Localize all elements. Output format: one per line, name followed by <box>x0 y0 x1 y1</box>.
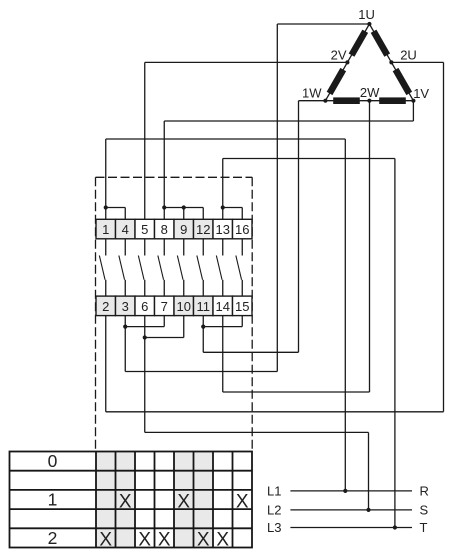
winding bar 2V-1U <box>349 30 368 57</box>
wire cell13 riser <box>222 159 224 220</box>
wire 1W riser <box>298 101 300 353</box>
winding bar 2U-1V <box>393 68 412 95</box>
wire net 3/7 riser <box>124 327 126 372</box>
svg-text:0: 0 <box>48 451 58 471</box>
wire L3 feed horizontal <box>223 158 395 160</box>
wire net1/4 riser <box>105 139 107 219</box>
terminal cell 10 <box>174 296 194 316</box>
svg-text:1: 1 <box>48 490 58 510</box>
svg-text:X: X <box>158 530 171 551</box>
supply line L3 <box>290 527 412 529</box>
stub into terminal 12 <box>202 208 204 220</box>
wire 2V feed horizontal <box>145 61 348 63</box>
svg-text:1V: 1V <box>413 86 429 101</box>
junction dot above terminal 8 <box>162 205 166 209</box>
wire 1W horizontal <box>299 100 326 102</box>
terminal cell 1 <box>96 219 116 239</box>
stub into terminal 9 <box>183 208 185 220</box>
supply line L2 <box>290 509 412 511</box>
svg-text:2V: 2V <box>331 48 347 63</box>
contact S1 (terminals 1-2) <box>99 239 105 296</box>
svg-text:X: X <box>236 491 249 512</box>
junction dot above terminal 13 <box>221 205 225 209</box>
motor winding delta: side 1W-1V <box>325 100 413 102</box>
terminal cell 12 <box>194 219 214 239</box>
stub terminal 11 <box>202 316 204 327</box>
junction dot L1 <box>343 489 347 493</box>
svg-text:7: 7 <box>161 299 168 314</box>
svg-text:1: 1 <box>102 222 109 237</box>
svg-text:X: X <box>177 491 190 512</box>
svg-text:6: 6 <box>141 299 148 314</box>
svg-text:10: 10 <box>177 299 191 314</box>
node 2V <box>345 60 349 64</box>
wire 1V stub down <box>412 101 414 121</box>
wire 1U riser <box>276 24 278 372</box>
junction dot L2 <box>366 508 370 512</box>
contact S5 (terminals 9-10) <box>177 239 183 296</box>
winding bar 1U-2U <box>371 30 390 57</box>
wire L3 riser <box>394 159 396 528</box>
node 1W <box>323 99 327 103</box>
svg-text:R: R <box>420 484 429 499</box>
wire cell2 riser <box>105 316 107 412</box>
svg-text:16: 16 <box>235 222 249 237</box>
stub terminal 15 <box>241 316 243 327</box>
svg-text:2W: 2W <box>360 85 380 100</box>
contact S4 (terminals 8-7) <box>158 239 164 296</box>
svg-text:X: X <box>216 530 229 551</box>
cam switch enclosure dashed left edge <box>95 177 97 451</box>
terminal cell 4 <box>116 219 136 239</box>
wire 1V feed horizontal <box>164 120 413 122</box>
svg-text:L2: L2 <box>267 503 281 518</box>
winding bar 2W-1V <box>379 97 406 104</box>
wire 2U feed horizontal <box>391 61 443 63</box>
wire cell14 riser <box>222 316 224 392</box>
terminal cell 6 <box>135 296 155 316</box>
contact S6 (terminals 12-11) <box>197 239 203 296</box>
svg-text:15: 15 <box>235 299 249 314</box>
wire 2U riser <box>443 62 445 411</box>
node 1V <box>411 99 415 103</box>
bridge terminals 3-7 <box>125 326 164 328</box>
winding bar 1W-2W <box>333 97 360 104</box>
terminal cell 11 <box>194 296 214 316</box>
stub terminal 3 <box>124 316 126 327</box>
svg-text:L3: L3 <box>267 520 281 535</box>
terminal cell 8 <box>155 219 175 239</box>
bridge terminals 1-4 <box>106 207 126 209</box>
cam switch enclosure dashed top edge <box>96 176 253 178</box>
bridge terminals 8-12 <box>164 207 203 209</box>
junction dot below terminal 11 <box>201 325 205 329</box>
wire cell2 to 2U horizontal <box>106 411 444 413</box>
svg-text:5: 5 <box>141 222 148 237</box>
svg-text:3: 3 <box>122 299 129 314</box>
wire cell5 riser <box>144 62 146 219</box>
stub into terminal 4 <box>124 208 126 220</box>
wire net 11/15 horizontal <box>203 351 298 353</box>
svg-text:8: 8 <box>161 222 168 237</box>
wire 1U top horizontal <box>277 23 369 25</box>
junction dot below terminal 3 <box>123 325 127 329</box>
svg-text:1U: 1U <box>358 7 375 22</box>
contact S3 (terminals 5-6) <box>138 239 144 296</box>
wire cell8 riser <box>163 121 165 219</box>
svg-text:14: 14 <box>216 299 230 314</box>
supply line L1 <box>290 490 412 492</box>
wire L2 riser <box>368 432 370 510</box>
wire L1 riser <box>344 139 346 491</box>
svg-text:X: X <box>138 530 151 551</box>
bridge terminals 13-16 <box>223 207 243 209</box>
svg-text:T: T <box>420 520 428 535</box>
wire net 6/10 riser <box>144 338 146 433</box>
svg-text:2U: 2U <box>400 48 417 63</box>
svg-text:L1: L1 <box>267 484 281 499</box>
contact S2 (terminals 4-3) <box>119 239 125 296</box>
junction dot L3 <box>393 525 397 529</box>
wire net 11/15 riser <box>202 327 204 353</box>
cam switch enclosure dashed right edge <box>251 177 253 451</box>
bridge terminals 6-10 <box>145 337 184 339</box>
terminal cell 5 <box>135 219 155 239</box>
junction dot below terminal 6 <box>143 335 147 339</box>
stub terminal 7 <box>163 316 165 327</box>
svg-text:X: X <box>99 530 112 551</box>
junction dot above terminal 9 <box>182 205 186 209</box>
motor winding delta: side 1W-1U <box>325 24 369 101</box>
svg-text:X: X <box>197 530 210 551</box>
svg-text:11: 11 <box>197 299 211 314</box>
selector table shaded column group A <box>96 452 135 548</box>
svg-text:9: 9 <box>180 222 187 237</box>
svg-text:2: 2 <box>102 299 109 314</box>
motor winding delta: side 1U-1V <box>369 24 413 101</box>
svg-text:4: 4 <box>122 222 129 237</box>
terminal cell 14 <box>213 296 233 316</box>
stub terminal 10 <box>183 316 185 338</box>
terminal cell 9 <box>174 219 194 239</box>
wire L1 feed horizontal <box>106 138 346 140</box>
terminal cell 2 <box>96 296 116 316</box>
contact S8 (terminals 16-15) <box>236 239 242 296</box>
bridge terminals 11-15 <box>203 326 242 328</box>
wire cell14 to 2W horizontal <box>223 391 370 393</box>
winding bar 1W-2V <box>327 68 346 95</box>
svg-text:1W: 1W <box>302 86 322 101</box>
selector table shaded column group B <box>174 452 213 548</box>
svg-text:13: 13 <box>216 222 230 237</box>
svg-text:2: 2 <box>48 528 58 548</box>
svg-text:S: S <box>420 503 429 518</box>
terminal cell 3 <box>116 296 136 316</box>
wire 1U to net 3/7 horizontal <box>125 371 277 373</box>
node 2W <box>367 99 371 103</box>
junction dot above terminal 1 <box>104 205 108 209</box>
contact S7 (terminals 13-14) <box>216 239 222 296</box>
wire 2W riser <box>369 101 371 392</box>
stub terminal 6 <box>144 316 146 338</box>
stub into terminal 16 <box>241 208 243 220</box>
wire L2 feed horizontal <box>145 431 369 433</box>
terminal cell 13 <box>213 219 233 239</box>
terminal cell 16 <box>233 219 253 239</box>
svg-text:X: X <box>119 491 132 512</box>
node 1U <box>367 22 371 26</box>
node 2U <box>389 60 393 64</box>
terminal cell 7 <box>155 296 175 316</box>
selector table grid <box>10 452 253 548</box>
svg-text:12: 12 <box>196 222 210 237</box>
terminal cell 15 <box>233 296 253 316</box>
